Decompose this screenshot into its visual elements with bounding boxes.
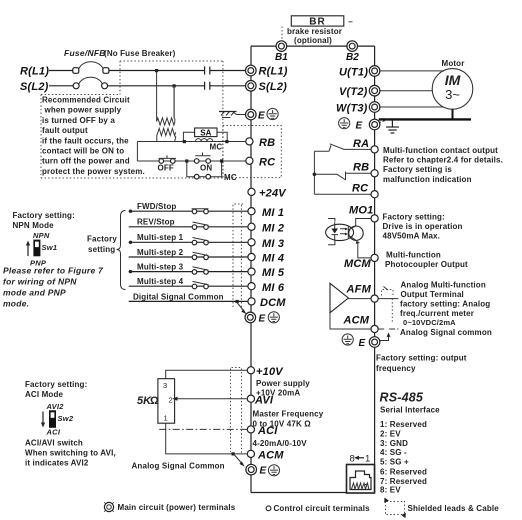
terminal DCM bbox=[248, 297, 286, 309]
ground earth symbol at E1 bbox=[219, 112, 246, 118]
svg-text:AVI2: AVI2 bbox=[46, 402, 65, 411]
junction on S line bbox=[173, 84, 176, 87]
wire S(L2) to fuse bbox=[49, 85, 73, 87]
terminal RC2 bbox=[371, 191, 378, 198]
terminal B1 bbox=[275, 41, 288, 63]
svg-text:2: EV: 2: EV bbox=[380, 429, 401, 438]
svg-text:Factory: Factory bbox=[87, 235, 117, 244]
svg-text:RC: RC bbox=[259, 157, 276, 169]
terminal MI6 bbox=[248, 282, 285, 294]
svg-text:Shielded leads & Cable: Shielded leads & Cable bbox=[408, 504, 500, 513]
svg-text:Refer to chapter2.4 for detail: Refer to chapter2.4 for details. bbox=[383, 156, 503, 165]
ground earth symbol under bus bbox=[386, 119, 399, 133]
svg-text:Analog Signal common: Analog Signal common bbox=[400, 328, 492, 337]
svg-text:when power supply: when power supply bbox=[44, 106, 122, 115]
label photocoupler output bbox=[385, 251, 468, 270]
wire ground bus bbox=[379, 118, 471, 120]
svg-text:MCM: MCM bbox=[344, 258, 372, 270]
svg-text:MI 4: MI 4 bbox=[262, 253, 284, 265]
label multi-function contact output bbox=[383, 146, 503, 184]
svg-text:U(T1): U(T1) bbox=[339, 66, 368, 78]
contact MC aux bbox=[187, 161, 237, 182]
wire dashed E4 to ground bus bbox=[379, 120, 389, 123]
wire shield drain to E2 arrow bbox=[237, 303, 247, 315]
svg-text:E: E bbox=[258, 111, 265, 122]
wire fuse to terminal R(L1) bbox=[109, 70, 204, 72]
svg-text:+24V: +24V bbox=[259, 188, 287, 200]
terminal ACI bbox=[247, 425, 278, 437]
svg-text:B2: B2 bbox=[346, 52, 359, 63]
svg-text:E: E bbox=[259, 314, 266, 325]
svg-text:3~: 3~ bbox=[445, 87, 460, 102]
wire row2 left bbox=[137, 160, 245, 162]
wire MI5 Multi-step 3 bbox=[129, 263, 248, 275]
svg-text:ACI Mode: ACI Mode bbox=[25, 390, 63, 399]
terminal MI3 bbox=[248, 238, 284, 250]
terminal W(T3) bbox=[336, 102, 380, 115]
dotted outline recommended circuit bbox=[41, 61, 223, 178]
svg-text:Master Frequency: Master Frequency bbox=[253, 410, 324, 419]
svg-text:mode.: mode. bbox=[3, 299, 29, 309]
terminal ACM2 bbox=[371, 325, 378, 332]
svg-text:MC: MC bbox=[210, 143, 223, 152]
terminal MI1 bbox=[248, 207, 284, 219]
junction row1 right bbox=[225, 140, 228, 143]
label analog output bbox=[400, 281, 492, 337]
wire resistor bottom elbow bbox=[157, 86, 176, 142]
terminal RB2 bbox=[371, 170, 378, 177]
terminal B2 bbox=[346, 41, 359, 63]
fuse F2 (S line) bbox=[73, 77, 108, 89]
wire left riser bbox=[136, 142, 138, 162]
svg-text:MI 3: MI 3 bbox=[262, 238, 284, 250]
label factory setting NPN bbox=[13, 211, 75, 230]
dotted box around RB RC bbox=[223, 126, 281, 178]
label recommended circuit note bbox=[42, 96, 145, 176]
label factory setting ACI bbox=[25, 380, 87, 399]
terminal E5 bbox=[359, 337, 380, 349]
svg-text:factory setting: Analog: factory setting: Analog bbox=[400, 300, 490, 309]
pushbutton OFF bbox=[158, 155, 177, 172]
svg-text:Factory setting: output: Factory setting: output bbox=[376, 354, 467, 363]
wire U(T1) to motor bbox=[380, 70, 444, 72]
svg-text:8: 8 bbox=[350, 454, 355, 465]
svg-text:ON: ON bbox=[200, 164, 212, 173]
resistor R1 zigzag bbox=[157, 118, 175, 125]
svg-text:Digital Signal Common: Digital Signal Common bbox=[133, 292, 224, 301]
wire V(T2) to motor bbox=[380, 90, 432, 92]
svg-text:Multi-function: Multi-function bbox=[386, 251, 441, 260]
legend control circuit terminal symbol bbox=[266, 506, 271, 511]
terminal MCM bbox=[371, 254, 378, 261]
switch Sw2 ACI/AVI bbox=[41, 402, 74, 437]
ground circle symbol at E1 bbox=[267, 108, 278, 119]
svg-text:8: EV: 8: EV bbox=[380, 486, 401, 495]
svg-text:malfunction indication: malfunction indication bbox=[383, 175, 472, 184]
meter M dashed symbol bbox=[382, 287, 394, 324]
coil MC bbox=[195, 139, 212, 142]
pushbutton ON bbox=[194, 153, 212, 173]
svg-text:R(L1): R(L1) bbox=[259, 66, 288, 78]
svg-text:Sw2: Sw2 bbox=[58, 414, 74, 423]
svg-text:RA: RA bbox=[353, 138, 369, 150]
svg-text:Output Terminal: Output Terminal bbox=[401, 290, 464, 299]
svg-text:V(T2): V(T2) bbox=[339, 86, 368, 98]
terminal ACM bbox=[247, 450, 284, 462]
terminal V(T2) bbox=[339, 85, 380, 98]
svg-text:4-20mA/0-10V: 4-20mA/0-10V bbox=[253, 439, 308, 448]
svg-text:if the fault occurs, the: if the fault occurs, the bbox=[42, 136, 129, 145]
label pin list bbox=[380, 420, 427, 495]
wire amplifier to ACM2 bbox=[330, 313, 371, 329]
junction row2 left bbox=[185, 159, 188, 162]
terminal MI5 bbox=[248, 267, 285, 279]
terminal MI4 bbox=[248, 253, 284, 265]
svg-text:Multi-step 2: Multi-step 2 bbox=[137, 248, 184, 257]
svg-text:E: E bbox=[260, 466, 267, 477]
svg-text:Factory setting:: Factory setting: bbox=[13, 211, 75, 220]
wire ACM2 dashed to annotation bbox=[378, 328, 398, 330]
svg-text:Photocoupler Output: Photocoupler Output bbox=[385, 260, 468, 269]
ground circle symbol at E5 bbox=[342, 334, 353, 345]
svg-text:RB: RB bbox=[353, 162, 369, 174]
wire MI3 Multi-step 1 bbox=[129, 233, 248, 245]
wire R branch down bbox=[156, 71, 158, 119]
terminal +10V bbox=[247, 366, 284, 378]
svg-text:NPN Mode: NPN Mode bbox=[13, 221, 55, 230]
svg-text:AVI: AVI bbox=[254, 394, 274, 406]
wire relay common riser bbox=[313, 151, 315, 194]
terminal E3 bbox=[246, 464, 267, 476]
contact MC main (R line) bbox=[205, 67, 246, 75]
svg-text:3: 3 bbox=[163, 381, 167, 390]
brace for factory setting bbox=[117, 211, 126, 290]
ground circle symbol at E3 bbox=[268, 465, 279, 476]
switch Sw1 NPN/PNP bbox=[26, 231, 57, 268]
relay contact RA bbox=[314, 138, 374, 151]
wire DCM Digital Signal Common bbox=[129, 292, 248, 301]
svg-text:Factory setting:: Factory setting: bbox=[383, 213, 445, 222]
svg-text:RS-485: RS-485 bbox=[380, 391, 424, 405]
svg-text:E: E bbox=[359, 338, 366, 349]
svg-text:S(L2): S(L2) bbox=[20, 81, 49, 93]
contact MC main (S line) bbox=[205, 82, 246, 90]
svg-text:for wiring of NPN: for wiring of NPN bbox=[3, 277, 77, 287]
terminal RC bbox=[246, 157, 276, 169]
junction on R line bbox=[155, 69, 158, 72]
svg-text:0~10VDC/2mA: 0~10VDC/2mA bbox=[403, 318, 456, 327]
svg-text:Factory setting:: Factory setting: bbox=[25, 380, 87, 389]
terminal S(L2) bbox=[246, 81, 288, 94]
terminal MO1 bbox=[371, 215, 378, 222]
svg-text:48V50mA Max.: 48V50mA Max. bbox=[383, 232, 441, 241]
svg-text:fault output: fault output bbox=[42, 126, 88, 135]
wire AFM to annotation bbox=[378, 298, 398, 300]
resistor R2 zigzag bbox=[158, 128, 176, 135]
wire motor ground stub bbox=[452, 109, 454, 119]
label 8 to 1 pins bbox=[350, 454, 371, 465]
terminal E4 bbox=[356, 119, 380, 131]
svg-text:Recommended Circuit: Recommended Circuit bbox=[42, 96, 130, 105]
svg-text:OFF: OFF bbox=[158, 164, 174, 173]
label factory setting output frequency bbox=[376, 354, 467, 374]
svg-text:ACI/AVI switch: ACI/AVI switch bbox=[25, 439, 83, 448]
svg-text:mode and PNP: mode and PNP bbox=[3, 288, 66, 298]
terminal E1 bbox=[246, 109, 266, 121]
svg-text:Multi-step 1: Multi-step 1 bbox=[137, 233, 184, 242]
connector J1 RJ45 bbox=[347, 465, 375, 494]
wire MO1 to phototransistor bbox=[356, 219, 371, 227]
wire R(L1) to fuse bbox=[49, 70, 73, 72]
svg-text:MI 1: MI 1 bbox=[262, 207, 284, 219]
wire MI6 Multi-step 4 bbox=[129, 277, 248, 289]
junction relay common bbox=[313, 173, 317, 177]
label please refer note bbox=[3, 266, 104, 309]
svg-text:B1: B1 bbox=[275, 52, 288, 63]
label factory setting brace bbox=[87, 235, 117, 255]
junction ACM shield bbox=[232, 452, 235, 455]
wire AVI wiper arrow bbox=[172, 397, 247, 401]
svg-text:turn off the power and: turn off the power and bbox=[42, 157, 130, 166]
svg-text:W(T3): W(T3) bbox=[336, 103, 368, 115]
svg-text:1: 1 bbox=[164, 414, 168, 423]
svg-text:it indicates AVI2: it indicates AVI2 bbox=[25, 459, 89, 468]
svg-text:brake resistor: brake resistor bbox=[287, 27, 342, 36]
svg-text:1: 1 bbox=[365, 454, 370, 465]
wire S branch down bbox=[173, 86, 175, 118]
svg-text:ACI: ACI bbox=[46, 428, 61, 437]
svg-text:+10V: +10V bbox=[256, 366, 284, 378]
svg-text:Control circuit terminals: Control circuit terminals bbox=[274, 504, 371, 513]
legend shielded cable symbol bbox=[384, 498, 406, 519]
motor M1 bbox=[432, 59, 473, 109]
wire MI2 REV/Stop bbox=[129, 218, 248, 230]
wire shield drain to E3 arrow bbox=[235, 455, 245, 467]
wire W(T3) to motor bbox=[380, 106, 444, 108]
svg-text:ACI: ACI bbox=[257, 425, 278, 437]
svg-text:frequency: frequency bbox=[376, 364, 416, 373]
dotted shield lines analog bbox=[231, 368, 242, 454]
svg-text:E: E bbox=[356, 121, 363, 132]
dotted shield lines MI bbox=[233, 204, 244, 310]
svg-text:MC: MC bbox=[224, 173, 237, 182]
wire row1 to RB bbox=[137, 141, 245, 143]
svg-text:Serial Interface: Serial Interface bbox=[380, 406, 440, 415]
svg-text:AFM: AFM bbox=[346, 284, 372, 296]
svg-text:When switching to AVI,: When switching to AVI, bbox=[25, 449, 116, 458]
terminal U(T1) bbox=[339, 66, 380, 79]
svg-text:ACM: ACM bbox=[343, 315, 370, 327]
svg-text:Main circuit (power) terminals: Main circuit (power) terminals bbox=[118, 503, 236, 512]
relay contact RB2 bbox=[314, 162, 374, 181]
wire E5 drain with arrow bbox=[379, 333, 391, 341]
wire drive enclosure outline bbox=[251, 46, 375, 492]
svg-text:ACM: ACM bbox=[257, 450, 284, 462]
junction row1 left bbox=[183, 140, 186, 143]
junction DCM shield bbox=[236, 300, 239, 303]
svg-text:S(L2): S(L2) bbox=[259, 81, 288, 93]
terminal AFM bbox=[371, 295, 378, 302]
svg-text:3: GND: 3: GND bbox=[380, 439, 408, 448]
terminal MI2 bbox=[248, 222, 284, 234]
svg-text:2: 2 bbox=[169, 396, 173, 405]
wire to RC2 bbox=[314, 193, 374, 195]
svg-text:MI 2: MI 2 bbox=[262, 222, 284, 234]
svg-text:FWD/Stop: FWD/Stop bbox=[137, 202, 176, 211]
svg-text:5: SG +: 5: SG + bbox=[380, 458, 409, 467]
svg-text:Multi-step 4: Multi-step 4 bbox=[137, 277, 184, 286]
junction row2 right bbox=[220, 159, 223, 162]
surge absorber SA bbox=[183, 128, 227, 142]
optocoupler U1 bbox=[326, 219, 364, 245]
ground circle symbol at E4 bbox=[339, 118, 350, 129]
wire fuse to terminal S(L2) bbox=[108, 85, 204, 87]
label MO1 factory setting bbox=[383, 213, 463, 241]
svg-text:contact will be ON to: contact will be ON to bbox=[42, 147, 124, 156]
svg-text:RC: RC bbox=[352, 183, 369, 195]
amplifier A1 triangle bbox=[330, 283, 348, 312]
svg-text:RB: RB bbox=[259, 137, 275, 149]
svg-text:Please refer to Figure 7: Please refer to Figure 7 bbox=[3, 266, 104, 276]
label ACI AVI switch note bbox=[25, 439, 116, 468]
svg-text:MI 6: MI 6 bbox=[262, 282, 285, 294]
wire MI1 FWD/Stop bbox=[129, 202, 248, 214]
wire ACI dash-dot bbox=[159, 428, 247, 430]
svg-text:NPN: NPN bbox=[33, 231, 50, 240]
svg-text:Fuse/NFB: Fuse/NFB bbox=[64, 48, 106, 58]
svg-text:IM: IM bbox=[445, 72, 461, 88]
terminal +24V bbox=[248, 188, 287, 200]
terminal RA bbox=[371, 146, 378, 153]
svg-text:freq./current meter: freq./current meter bbox=[400, 309, 474, 318]
wire phototransistor to MCM bbox=[358, 242, 371, 258]
wire potentiometer bottom to ACM bbox=[166, 423, 248, 454]
terminal E2 bbox=[245, 312, 266, 324]
wire MI4 Multi-step 2 bbox=[129, 248, 248, 260]
svg-text:(No Fuse Breaker): (No Fuse Breaker) bbox=[104, 49, 176, 58]
fuse F1 (R line) bbox=[73, 62, 109, 74]
svg-text:1: Reserved: 1: Reserved bbox=[380, 420, 427, 429]
potentiometer VR1 5K bbox=[158, 379, 175, 424]
svg-text:Analog Signal Common: Analog Signal Common bbox=[132, 462, 225, 471]
wire dashed stub right of BR bbox=[349, 21, 353, 23]
svg-text:setting: setting bbox=[88, 245, 115, 254]
svg-text:Analog Multi-function: Analog Multi-function bbox=[401, 281, 486, 290]
svg-text:R(L1): R(L1) bbox=[20, 66, 49, 78]
svg-text:Sw1: Sw1 bbox=[42, 243, 58, 252]
terminal R(L1) bbox=[246, 65, 288, 77]
terminal RB bbox=[246, 137, 275, 149]
svg-text:6: Reserved: 6: Reserved bbox=[380, 468, 427, 477]
svg-text:is turned OFF by a: is turned OFF by a bbox=[42, 116, 115, 125]
svg-text:(optional): (optional) bbox=[294, 36, 332, 45]
svg-text:MI 5: MI 5 bbox=[262, 267, 285, 279]
svg-text:Drive is in operation: Drive is in operation bbox=[383, 222, 463, 231]
svg-text:Multi-step 3: Multi-step 3 bbox=[137, 263, 184, 272]
svg-text:DCM: DCM bbox=[260, 297, 286, 309]
brake resistor BR box bbox=[291, 16, 344, 28]
legend main circuit terminal symbol bbox=[104, 502, 113, 511]
svg-text:MO1: MO1 bbox=[349, 205, 373, 217]
svg-text:Motor: Motor bbox=[442, 59, 465, 68]
terminal AVI bbox=[247, 394, 274, 406]
ground circle symbol at E2 bbox=[268, 312, 279, 323]
svg-text:Power supply: Power supply bbox=[256, 379, 310, 388]
svg-text:protect the power system.: protect the power system. bbox=[42, 167, 145, 176]
wire +10V to potentiometer bbox=[166, 370, 248, 378]
wire amplifier to AFM bbox=[348, 298, 371, 300]
svg-text:4: SG -: 4: SG - bbox=[380, 448, 407, 457]
svg-text:REV/Stop: REV/Stop bbox=[137, 218, 175, 227]
svg-text:Factory setting is: Factory setting is bbox=[383, 165, 452, 174]
svg-text:Multi-function contact output: Multi-function contact output bbox=[383, 146, 498, 155]
wire dashed lead from BR to B1 bbox=[281, 27, 283, 42]
svg-text:SA: SA bbox=[200, 129, 211, 138]
